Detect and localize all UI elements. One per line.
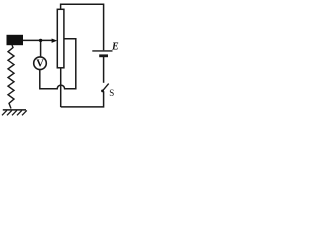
voltmeter V <box>34 57 47 70</box>
wire photocell to slider arrow <box>23 39 53 41</box>
svg-text:V: V <box>36 59 44 70</box>
rheostat R body <box>57 9 64 68</box>
ground <box>2 110 27 115</box>
svg-text:S: S <box>109 88 114 98</box>
wire top: rheostat top to right rail down to battery <box>61 4 104 50</box>
battery E short thick plate <box>99 54 108 57</box>
resistor zigzag to ground <box>8 45 14 109</box>
switch S blade <box>102 84 108 92</box>
svg-text:E: E <box>111 42 119 53</box>
wire voltmeter top branch <box>40 40 42 57</box>
battery E long plate <box>92 50 112 52</box>
wire battery to switch <box>103 56 105 83</box>
wire rheostat bottom down to bottom rail <box>60 68 62 107</box>
wire switch to bottom rail <box>61 91 104 107</box>
photocell electrode (solid box) <box>7 35 24 45</box>
wire voltmeter bottom with crossover bump to rheostat tap <box>40 39 76 89</box>
slider arrow of rheostat <box>52 39 58 43</box>
node: junction dot voltmeter branch <box>39 39 42 42</box>
switch pivot dot <box>101 90 104 93</box>
